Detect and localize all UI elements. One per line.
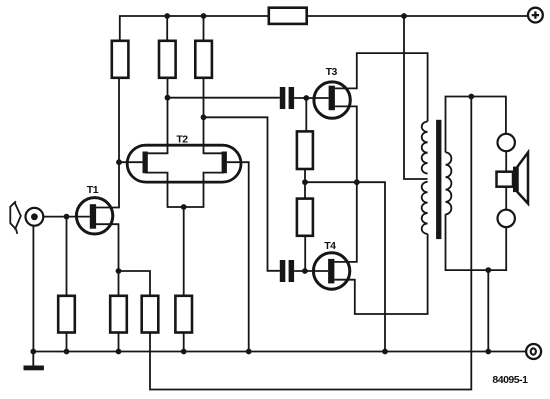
- svg-text:T3: T3: [326, 66, 338, 78]
- svg-text:T4: T4: [324, 240, 336, 252]
- svg-text:T2: T2: [176, 133, 188, 145]
- svg-text:T1: T1: [87, 184, 99, 196]
- svg-text:84095-1: 84095-1: [492, 374, 528, 386]
